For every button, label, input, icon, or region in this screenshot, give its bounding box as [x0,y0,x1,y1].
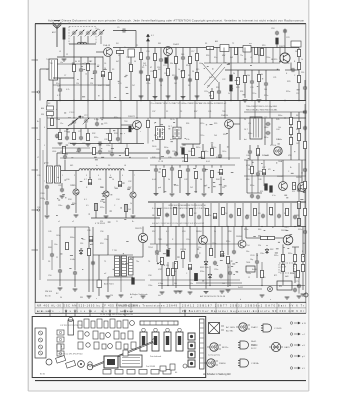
PCB part extra 2 [88,362,92,366]
wire [167,55,169,68]
resistor R29 [298,75,301,82]
wire [119,54,121,101]
wire [298,57,300,63]
wire [161,265,163,289]
capacitor C43 [266,122,271,126]
svg-text:TR13: TR13 [284,227,288,229]
label mark [163,252,166,255]
svg-text:C1 R4 T2 ZF1 ZF2 ZF3 osc de: C1 R4 T2 ZF1 ZF2 ZF3 osc det TR5 TR6 [100,313,133,316]
wire [202,144,204,151]
label mark [199,252,200,255]
junction [175,226,176,227]
label mark [221,252,224,255]
wire [60,226,89,228]
trimmer capacitor CT1 [91,30,98,37]
wire [91,217,160,219]
svg-text:D1a: D1a [82,239,85,241]
ground [154,194,159,196]
svg-text:R2: R2 [90,61,92,63]
label mark [173,121,175,124]
PCB pad 6 [163,370,171,375]
label mark [300,198,303,201]
wire [61,183,63,188]
PCB pad 4 [139,370,147,375]
wire [164,101,166,119]
PCB component P20 [94,342,99,349]
svg-text:30: 30 [60,297,62,299]
schematic frame left border [34,24,36,303]
wire [251,48,253,64]
wire [158,285,305,287]
ground bus [47,100,306,102]
svg-text:R18: R18 [223,134,226,136]
wire [304,114,306,141]
label mark [289,233,292,236]
svg-text:S1: S1 [205,43,207,45]
wire [298,141,300,160]
wire [251,160,253,166]
label mark [231,265,233,268]
svg-text:C47: C47 [262,167,265,169]
wire [125,204,127,218]
svg-text:AM: AM [41,107,44,110]
wire [132,198,134,214]
wire [47,117,150,119]
wire [57,63,96,65]
svg-text:C31: C31 [98,179,101,181]
wire stub [32,59,39,61]
label mark [287,247,289,250]
svg-text:C23: C23 [286,37,289,39]
label mark [123,252,124,255]
wire [51,240,53,253]
wire [192,144,194,148]
PCB box L2 [57,337,64,342]
capacitor S16 [277,214,281,219]
label mark [94,156,97,159]
capacitor S2 [165,213,169,218]
label mark [219,183,222,186]
svg-text:4: 4 [98,175,99,177]
potentiometer VR1 (volume) [274,147,282,155]
terminal [37,91,39,93]
label mark [303,191,306,194]
wire [227,264,229,287]
wire [272,48,274,64]
svg-text:R18: R18 [258,55,261,57]
wire [53,84,110,86]
wire [179,165,181,168]
wire [175,227,177,261]
wire [46,205,48,215]
svg-text:C14: C14 [150,71,153,73]
component lead [124,312,126,317]
ground [202,194,207,196]
junction [140,100,141,101]
svg-text:RM 300: RM 300 [45,291,53,293]
resistor R8 [189,56,192,63]
wire [257,160,259,172]
svg-text:osz: osz [37,139,40,141]
resistor R62 [282,264,285,271]
wire [109,129,111,134]
oscillator coil T4 [55,166,61,183]
wire [92,227,94,292]
resistor R76 [172,268,175,275]
transistor TR12 [238,240,246,248]
resistor R86 (dark) [129,126,131,132]
capacitor S12 [245,215,249,220]
PCB electrolytic can [68,320,74,335]
IF transformer Z2 [156,127,165,140]
svg-text:R47: R47 [296,115,299,117]
svg-text:0.04a: 0.04a [174,185,179,187]
wire [257,156,259,160]
svg-text:5k0: 5k0 [174,283,177,285]
wire [150,279,240,281]
capacitor C52 [213,261,217,266]
svg-text:OC 45 - 304: OC 45 - 304 [37,311,50,313]
wire rail [150,117,306,119]
wire [87,129,89,134]
wire [178,203,180,227]
wire [121,124,133,126]
wire [220,165,222,168]
wire [221,244,223,251]
junction [214,226,215,227]
label mark [97,65,99,68]
capacitor C22 [217,90,221,95]
svg-text:C41a: C41a [204,151,208,153]
PCB IF can 1 [140,332,147,351]
electrolytic capacitor C51 [188,264,191,269]
label mark [64,112,66,115]
electrolytic capacitor C58 (dark) [132,278,135,284]
label mark [171,140,173,143]
resistor R53 [88,248,91,255]
PCB component P18 [78,342,83,349]
label mark [106,132,108,135]
resistor R48 [298,133,301,140]
wire [298,129,300,134]
svg-text:R321 9mA: R321 9mA [200,266,209,269]
svg-text:7006a: 7006a [246,273,251,275]
svg-text:5: 5 [110,175,111,177]
junction [294,226,295,227]
wire [195,179,197,193]
resistor S11 [238,208,241,215]
wire [170,203,172,227]
wire [88,227,90,292]
label mark [231,171,234,174]
wire [282,160,284,182]
svg-text:C33: C33 [58,185,61,187]
svg-text:10.7: 10.7 [244,129,248,131]
wire [210,227,212,245]
capacitor C19 [250,80,254,85]
transistor TR14 [138,233,147,242]
wire [175,48,177,57]
label mark [82,62,84,65]
svg-text:C44: C44 [276,129,279,131]
resistor R43 [211,170,214,177]
svg-text:C 8F5A: C 8F5A [251,362,259,365]
resistor R70 [304,181,307,188]
label mark [92,243,94,246]
wire [150,164,235,166]
wire [298,203,300,227]
wire [294,262,296,265]
wire [194,101,196,119]
wire [107,277,109,292]
wire [265,48,267,64]
wire [244,111,306,113]
svg-text:TR5: TR5 [72,185,75,187]
wire [304,104,306,110]
wire [276,44,278,48]
wire [261,262,263,270]
label mark [209,95,212,98]
junction [87,100,88,101]
label mark [182,156,185,159]
wire [196,48,198,54]
label mark [294,150,295,153]
label mark [174,183,176,186]
table top rule [35,301,306,303]
wire [52,147,90,149]
resistor R49 [257,148,260,155]
svg-text:Z4: Z4 [244,119,246,121]
trimmer block [35,328,46,358]
label mark [262,78,263,81]
wire [302,227,304,255]
junction [136,117,137,118]
svg-text:C88: C88 [87,230,90,232]
resistor R82 [210,248,213,255]
ground [257,100,262,102]
label mark [65,153,68,156]
wire [73,36,75,44]
PCB box L1 [57,330,64,335]
svg-text:50: 50 [46,69,48,71]
label mark [159,136,160,139]
wire [109,141,111,144]
svg-text:R3: R3 [112,69,114,71]
svg-text:C40a: C40a [188,151,192,153]
wire [218,82,220,90]
variable capacitor C1a [71,30,78,37]
transistor TR4 [133,121,142,130]
label mark [276,162,277,165]
wire [298,272,300,284]
PCB component P22 [108,344,113,349]
svg-text:C46: C46 [246,155,249,157]
wire [256,253,258,260]
wire [40,68,49,70]
capacitor C16 [174,76,178,81]
wire [163,165,165,168]
svg-text:C32: C32 [128,181,131,183]
svg-text:C22a: C22a [204,91,208,93]
scan page left edge [27,0,29,391]
svg-text:2k2: 2k2 [190,187,193,189]
wire [94,57,96,70]
electrolytic capacitor C56 [89,236,92,241]
label mark [202,280,204,283]
ground [178,291,183,293]
label mark [185,137,186,140]
resistor R45 [290,127,293,134]
wire [218,203,220,227]
wire [304,189,306,209]
svg-text:c: c [140,131,141,133]
svg-text:C24: C24 [296,93,299,95]
label mark [172,135,174,138]
junction [227,226,228,227]
label mark [126,240,128,243]
svg-text:C18a: C18a [266,57,270,59]
transistor TR7 [130,192,136,198]
svg-text:R4: R4 [116,43,118,45]
svg-text:OA70: OA70 [284,346,290,349]
ground [87,296,92,298]
capacitor C30 [63,155,67,160]
svg-text:R58a: R58a [200,271,204,273]
label mark [206,124,207,127]
svg-text:A-Regler Tonblende: A-Regler Tonblende [130,293,149,296]
wire [244,175,306,177]
resistor R84 [63,146,66,153]
resistor R83 [51,118,54,125]
junction [284,117,285,118]
wire [263,175,265,186]
resistor R75 [167,268,170,275]
wire [204,62,280,64]
svg-text:R33: R33 [114,133,117,135]
svg-text:R45a: R45a [264,137,268,139]
capacitor C71 [195,254,199,259]
capacitor C73 [232,250,236,255]
svg-text:ZF1: ZF1 [108,151,111,153]
wire [261,278,263,286]
resistor R46 [290,137,293,144]
table column separator [305,302,307,313]
svg-text:8: 8 [44,199,45,201]
label mark [102,192,105,195]
transistor TR10 [298,183,307,192]
svg-text:J1: J1 [248,277,250,279]
wire [210,244,212,248]
svg-text:C7: C7 [64,75,66,77]
resistor R85 [251,166,254,173]
tuning capacitor box [120,355,142,367]
svg-text:R46a: R46a [278,115,282,117]
label mark [80,247,82,250]
wire [223,48,225,64]
svg-text:R44a: R44a [248,133,252,135]
wire stub [32,127,39,129]
wire [126,144,128,149]
svg-text:2SA 49: 2SA 49 [103,44,111,47]
svg-text:det1: det1 [170,138,174,141]
capacitor S10 [229,214,233,219]
PCB component P14 [106,333,111,338]
resistor R72 [185,154,188,161]
resistor R6 [154,53,157,60]
component lead [184,312,186,317]
resistor R64 [294,264,297,271]
label mark [72,62,75,65]
label mark [183,144,186,147]
wire [142,227,144,234]
svg-text:465: 465 [70,165,73,167]
svg-text:56: 56 [192,71,194,73]
label mark [303,191,306,194]
wire [147,118,149,120]
svg-text:1k5: 1k5 [264,89,267,91]
PCB component P6 [110,319,115,328]
label mark [113,129,115,132]
wire [258,48,260,64]
PCB component P24 [124,344,128,349]
wire [304,80,306,86]
capacitor C68 [98,150,102,155]
wire [239,118,241,140]
svg-text:2SB56: 2SB56 [236,236,242,238]
wire [274,203,276,227]
label mark [219,156,222,159]
label mark [159,168,161,171]
label mark [211,142,213,145]
resistor R66 [302,264,305,271]
svg-text:4.7: 4.7 [84,179,87,181]
potentiometer VR2 [161,257,164,264]
svg-text:L10: L10 [248,123,251,125]
IF transformer Z3 [173,127,181,139]
svg-text:10p: 10p [250,259,253,261]
PCB component P2 [84,319,89,328]
label mark [58,199,60,202]
wire [100,117,121,119]
label mark [114,96,116,99]
wire [246,237,260,239]
wire [167,55,169,100]
svg-text:C22: C22 [222,79,225,81]
capacitor S14 [261,214,265,219]
svg-text:2k: 2k [214,231,216,233]
wire [39,69,41,101]
resistor R68 [66,242,69,249]
svg-text:C45: C45 [296,143,299,145]
svg-text:e: e [124,133,125,135]
ground [106,296,111,298]
resistor R78 [297,270,300,277]
wire [100,36,102,44]
label mark [66,128,68,131]
ground [195,96,200,98]
svg-text:E4: E4 [175,372,177,374]
trimmer screw 1 [39,331,43,335]
svg-text:R51: R51 [260,191,263,193]
capacitor C27 [79,136,83,141]
wire [108,254,133,256]
resistor R55 (dark) [167,250,170,256]
svg-text:AC 10FS: AC 10FS [226,326,235,329]
battery box BT1 [277,281,292,290]
wire [42,150,44,260]
svg-text:L7: L7 [37,157,39,159]
wire [95,203,97,218]
